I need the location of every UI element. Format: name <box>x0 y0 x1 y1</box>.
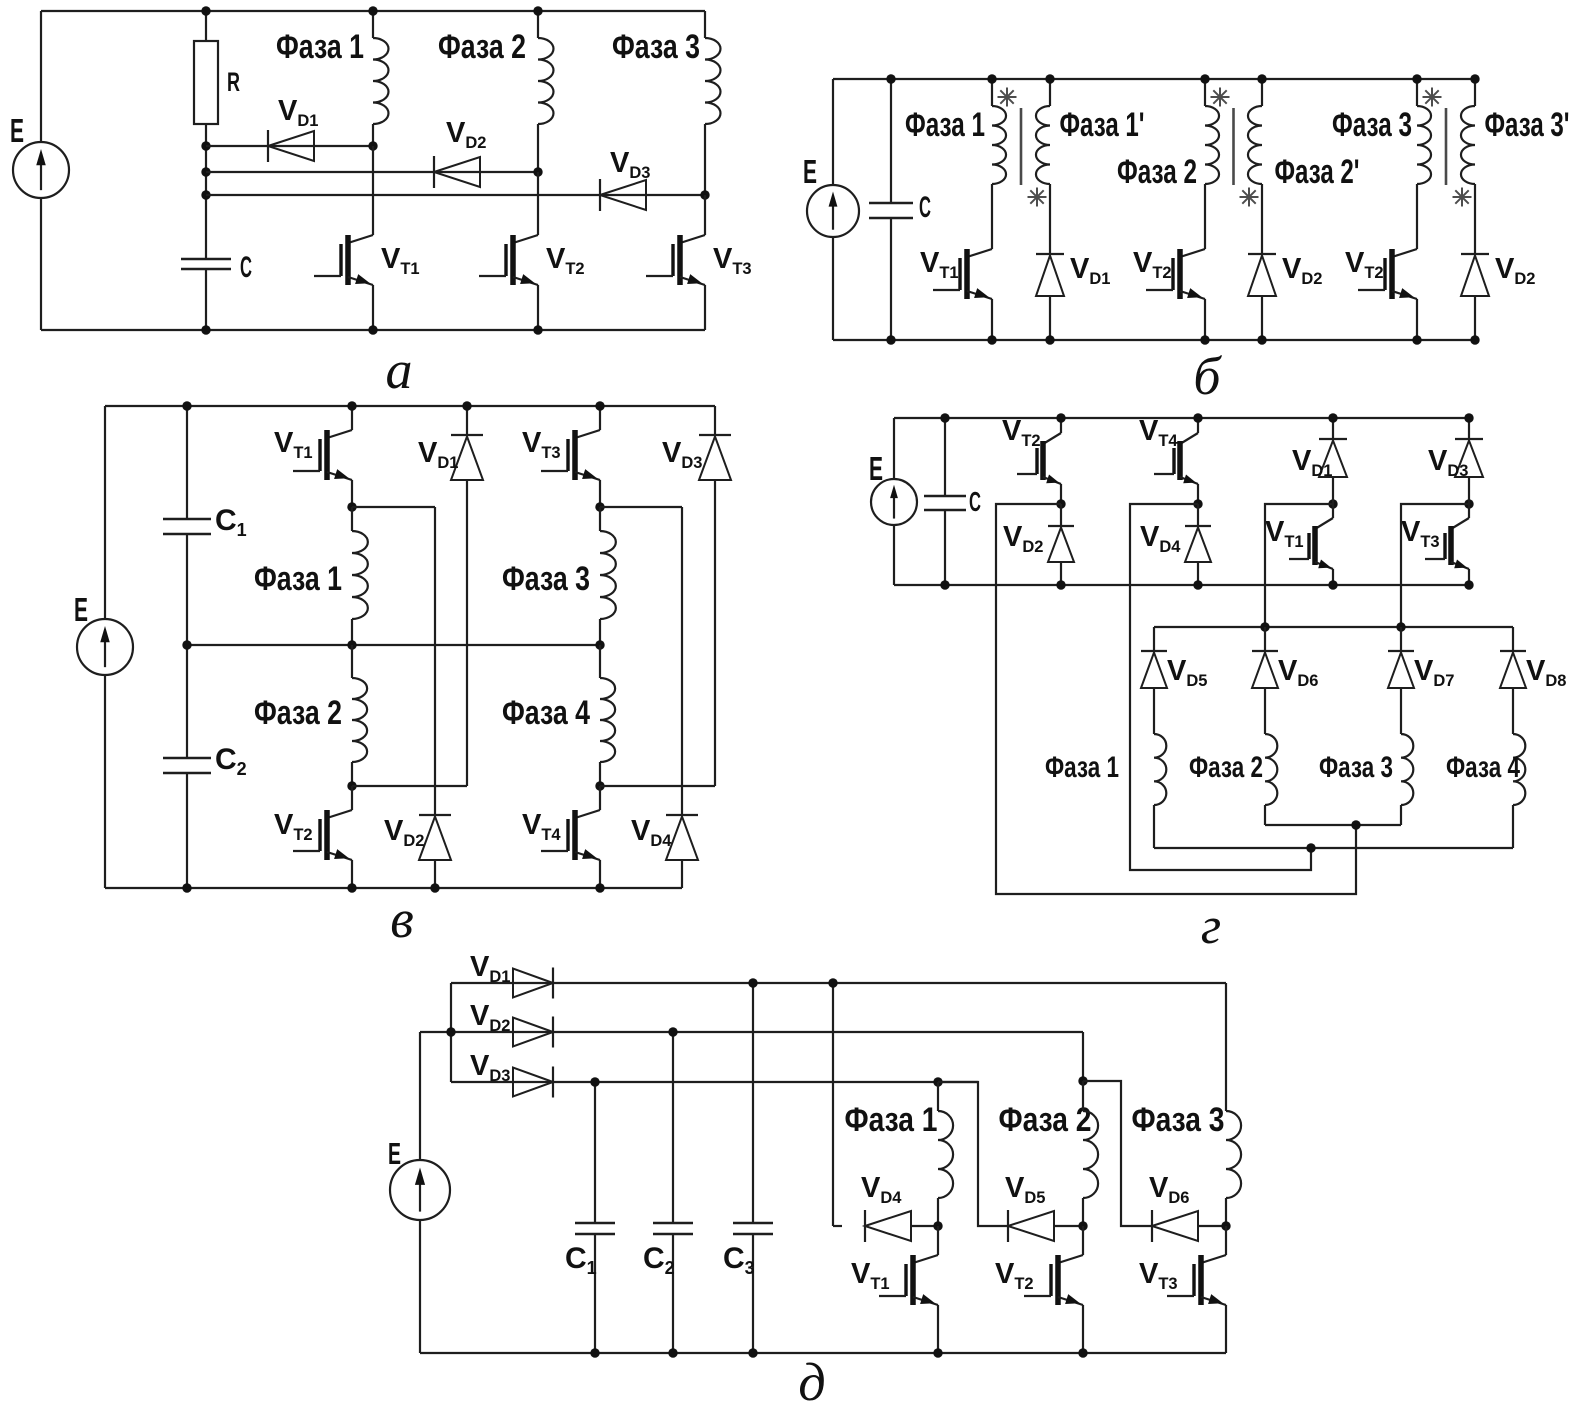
wire L2 drop to phase2 <box>1082 1032 1084 1081</box>
svg-text:Фаза 2: Фаза 2 <box>1189 751 1263 784</box>
inductor Фаза 1 v <box>351 507 353 531</box>
wire E branch d <box>419 1032 421 1160</box>
diode VD1 g <box>1332 418 1334 439</box>
svg-text:а: а <box>386 340 413 400</box>
diode VD3 v <box>714 406 716 435</box>
svg-text:Фаза 2: Фаза 2 <box>999 1101 1092 1139</box>
diode VD6 d <box>1151 1210 1153 1242</box>
transistor VT4 v <box>599 786 601 810</box>
source E d <box>390 1160 450 1220</box>
diode VD3 g <box>1468 418 1470 439</box>
svg-text:E: E <box>10 112 24 149</box>
wire top rail b <box>833 78 1475 80</box>
capacitor C b <box>890 79 892 203</box>
wire A2 return (VT4 to phase bottoms) <box>1130 504 1311 870</box>
source E b <box>807 185 859 237</box>
diode VD1 v <box>466 406 468 435</box>
wire emitter b <box>1416 299 1418 340</box>
rail dots g <box>1056 413 1065 422</box>
node phase2/3 bottom to VT2 return <box>1351 820 1360 829</box>
rail dots b <box>1200 74 1209 83</box>
wire L3 extension to VD5 <box>938 1082 1008 1226</box>
wire diode bus VD1 (L1) <box>451 982 1226 984</box>
node below lower inductor <box>347 781 356 790</box>
rail dots b <box>1412 74 1421 83</box>
node below top transistor <box>347 502 356 511</box>
wire VD1-bus to VD4 <box>832 983 834 1226</box>
source E a <box>13 142 69 198</box>
inductor phase 3 d <box>1226 1111 1241 1198</box>
wire bottom rail b <box>833 339 1475 341</box>
node mid rail v <box>347 640 356 649</box>
node phase1-VD1 <box>368 141 377 150</box>
wire to lower freewheel diode branch <box>352 506 435 508</box>
inductor phase 2 a <box>537 11 539 38</box>
wire phase1-phase4 bottoms <box>1154 847 1513 849</box>
svg-text:E: E <box>74 591 88 628</box>
svg-text:Фаза 1: Фаза 1 <box>276 28 364 66</box>
node B2 <box>1464 499 1473 508</box>
wire bottom rail v <box>105 887 682 889</box>
diode VD5 d <box>1007 1210 1009 1242</box>
svg-text:Фаза 3': Фаза 3' <box>1485 106 1570 144</box>
wire mid rail v <box>187 644 600 646</box>
wire VT1 emitter <box>372 285 374 330</box>
node phase1 bottom <box>933 1221 942 1230</box>
node below lower inductor <box>595 781 604 790</box>
svg-text:Фаза 1': Фаза 1' <box>1060 106 1145 144</box>
transistor VT1 v <box>351 406 353 430</box>
polarity mark primary <box>1423 96 1442 98</box>
polarity mark secondary <box>1453 196 1472 198</box>
svg-text:Фаза 2: Фаза 2 <box>1117 153 1197 191</box>
transistor VT1 b1 <box>967 249 992 257</box>
capacitor C2 <box>186 645 188 758</box>
node column wire a <box>205 146 207 259</box>
transistor VT1 d <box>937 1226 939 1255</box>
inductor phase 2 g <box>1264 688 1266 734</box>
transistor VT3 a <box>680 235 705 243</box>
diode VD3 d <box>552 1067 554 1098</box>
capacitor C2 d <box>672 1032 674 1223</box>
inductor phase 3 g <box>1400 688 1402 734</box>
svg-text:Фаза 3: Фаза 3 <box>1319 751 1393 784</box>
svg-text:Фаза 1: Фаза 1 <box>905 106 985 144</box>
wire VT3 emitter <box>704 285 706 330</box>
wire emitter b <box>1204 299 1206 340</box>
inductor phase 3 a <box>704 11 706 38</box>
wire VD3 row <box>206 194 705 196</box>
wire E to anode bus <box>420 1031 451 1033</box>
capacitor C1 d <box>594 1082 596 1223</box>
svg-text:Фаза 3: Фаза 3 <box>1332 106 1412 144</box>
wire VD1 row <box>206 145 373 147</box>
diode VD4 g <box>1197 504 1199 526</box>
wire phase1 to VT1 <box>372 146 374 235</box>
svg-text:E: E <box>803 153 817 190</box>
diode VD4 d <box>833 1225 842 1227</box>
capacitor C3 d <box>752 983 754 1223</box>
inductor Фаза 4 v <box>599 645 601 678</box>
diode VD2 <box>433 156 435 188</box>
transformer core <box>1445 108 1448 185</box>
polarity mark primary <box>1211 96 1230 98</box>
svg-text:E: E <box>869 450 883 487</box>
node phase2-VD2 <box>533 167 542 176</box>
svg-text:Фаза 2: Фаза 2 <box>254 694 342 732</box>
node phase1 top <box>933 1077 942 1086</box>
svg-text:Фаза 2': Фаза 2' <box>1275 153 1360 191</box>
wire diode bottom b <box>1474 296 1476 340</box>
inductor phase 1 d <box>937 1082 939 1111</box>
svg-text:Фаза 2: Фаза 2 <box>438 28 526 66</box>
wire diode bottom b <box>1049 296 1051 340</box>
wire left rail v <box>104 406 106 619</box>
wire top rail g <box>894 417 1469 419</box>
svg-text:Фаза 1: Фаза 1 <box>254 560 342 598</box>
wire L1 drop to phase3 <box>1225 983 1227 1111</box>
node mid rail v <box>595 640 604 649</box>
transistor VT2 b3 <box>1392 249 1417 257</box>
svg-text:Фаза 3: Фаза 3 <box>612 28 700 66</box>
capacitor C a <box>181 258 231 261</box>
transistor VT1 a <box>348 235 373 243</box>
wire left rail a <box>40 11 42 142</box>
wire B1 to lower rail <box>1265 504 1333 627</box>
inductor phase 1 a <box>372 11 374 38</box>
svg-text:б: б <box>1193 346 1222 406</box>
node A1 <box>1056 499 1065 508</box>
node B1 <box>1328 499 1337 508</box>
svg-text:в: в <box>390 889 413 949</box>
transistor VT2 a <box>513 235 538 243</box>
diode VD1 b1 <box>1036 253 1064 255</box>
wire left rail b <box>832 79 834 185</box>
wire phase3 to VT3 <box>704 195 706 235</box>
wire top rail v <box>105 405 715 407</box>
diode VD8 <box>1512 627 1514 651</box>
wire to lower freewheel diode branch <box>600 506 682 508</box>
capacitor C1 <box>186 406 188 519</box>
diode VD5 <box>1153 627 1155 651</box>
transistor VT2 d <box>1082 1226 1084 1255</box>
transistor VT2 g <box>1060 418 1062 433</box>
diode VD7 <box>1400 627 1402 651</box>
source E g <box>871 479 917 525</box>
node phase2 top <box>1078 1076 1087 1085</box>
capacitor C g <box>944 418 946 496</box>
inductor primary Фаза 2 <box>1204 79 1206 106</box>
svg-text:Фаза 4: Фаза 4 <box>502 694 590 732</box>
wire B2 to lower rail <box>1401 504 1469 627</box>
diode VD6 <box>1264 627 1266 651</box>
wire diode bus VD3 (L3) <box>451 1081 978 1083</box>
inductor secondary Фаза 1' <box>1049 79 1051 106</box>
wire bottom rail d <box>420 1352 1226 1354</box>
inductor primary Фаза 1 <box>991 79 993 106</box>
svg-text:Фаза 1: Фаза 1 <box>1045 751 1119 784</box>
source E v <box>77 619 133 675</box>
svg-text:C: C <box>240 251 252 284</box>
svg-text:Фаза 3: Фаза 3 <box>502 560 590 598</box>
wire diode bus VD2 (L2) <box>451 1031 1083 1033</box>
diode VD2 g <box>1060 504 1062 526</box>
inductor secondary Фаза 2' <box>1261 79 1263 106</box>
wire phase2-phase3 bottoms <box>1265 824 1401 826</box>
wire lower rail g <box>1154 626 1513 628</box>
svg-text:R: R <box>227 67 240 97</box>
transistor VT3 v <box>599 406 601 430</box>
polarity mark primary <box>998 96 1017 98</box>
wire mid rail g <box>894 584 1469 586</box>
svg-text:д: д <box>798 1352 825 1404</box>
svg-text:Фаза 1: Фаза 1 <box>845 1101 938 1139</box>
node phase1/4 bottom to VT4 return <box>1306 843 1315 852</box>
transistor VT1 g <box>1332 477 1334 504</box>
diode VD2 d <box>552 1017 554 1048</box>
wire emitter b <box>991 299 993 340</box>
svg-text:г: г <box>1201 898 1221 955</box>
svg-text:E: E <box>388 1136 401 1171</box>
inductor Фаза 3 v <box>599 507 601 531</box>
wire anode bus vertical <box>450 983 452 1082</box>
transformer core <box>1232 108 1235 185</box>
diode VD1 d <box>552 968 554 999</box>
polarity mark secondary <box>1240 196 1259 198</box>
svg-text:C: C <box>969 486 981 517</box>
transistor VT2 v <box>351 786 353 810</box>
diode VD2 b3 <box>1461 253 1489 255</box>
wire phase2 to VT2 <box>537 172 539 235</box>
wire diode bottom b <box>1261 296 1263 340</box>
wire A1 return (VT2 to phase bottoms) <box>996 504 1356 894</box>
resistor R <box>205 11 207 41</box>
node phase3 bottom <box>1221 1221 1230 1230</box>
wire top rail a <box>41 10 705 12</box>
diode VD2 b2 <box>1248 253 1276 255</box>
diode VD3 <box>599 179 601 211</box>
transistor VT3 d <box>1225 1226 1227 1255</box>
svg-text:Фаза 4: Фаза 4 <box>1446 751 1520 784</box>
node dots column a <box>201 141 210 150</box>
inductor secondary Фаза 3' <box>1474 79 1476 106</box>
wire VT2 emitter <box>537 285 539 330</box>
inductor phase 1 g <box>1153 688 1155 734</box>
rail node dots a <box>201 6 210 15</box>
node phase2 bottom <box>1078 1221 1087 1230</box>
polarity mark secondary <box>1028 196 1047 198</box>
transformer core <box>1020 108 1023 185</box>
diode VD1 <box>267 130 269 162</box>
rail dots b <box>987 74 996 83</box>
diode VD2 v <box>419 814 451 816</box>
svg-text:Фаза 3: Фаза 3 <box>1132 1101 1225 1139</box>
transistor VT4 g <box>1197 418 1199 433</box>
inductor phase 2 d <box>1082 1081 1084 1111</box>
wire to upper freewheel diode branch <box>600 785 715 787</box>
wire VD2 row <box>206 171 538 173</box>
wire left rail g <box>893 418 895 479</box>
wire bottom rail a <box>41 329 705 331</box>
node phase3-VD3 <box>700 190 709 199</box>
inductor primary Фаза 3 <box>1416 79 1418 106</box>
inductor phase 4 g <box>1512 688 1514 734</box>
diode VD4 v <box>666 814 698 816</box>
transistor VT3 g <box>1468 477 1470 504</box>
transistor VT2 b2 <box>1180 249 1205 257</box>
inductor Фаза 2 v <box>351 645 353 678</box>
wire to upper freewheel diode branch <box>352 785 467 787</box>
node below top transistor <box>595 502 604 511</box>
wire phase2-top extension to VD6 <box>1083 1081 1152 1226</box>
node A2 <box>1193 499 1202 508</box>
svg-text:C: C <box>919 191 931 224</box>
